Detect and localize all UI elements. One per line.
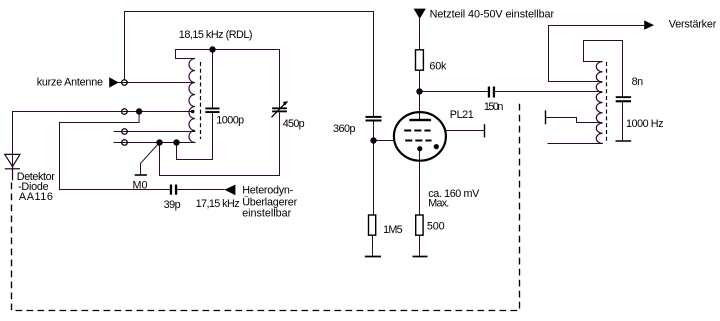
wire grid right from U1 to terminal bar (446, 130, 485, 132)
svg-text:8n: 8n (632, 76, 644, 88)
wire heterodyne feed: node to 39p line (60, 112, 170, 190)
svg-text:Heterodyn-: Heterodyn- (242, 185, 293, 197)
wire antenna arrow tip to terminal (118, 82, 121, 84)
svg-text:einstellbar: einstellbar (242, 208, 291, 220)
junction dot grid node (370, 137, 376, 143)
wire through antenna terminal (121, 82, 127, 84)
svg-text:Überlagerer: Überlagerer (242, 196, 297, 208)
svg-text:kurze Antenne: kurze Antenne (37, 77, 103, 89)
grid 1 dashes (404, 130, 430, 132)
svg-text:450p: 450p (283, 118, 305, 130)
wire detector diode to terminal row (13, 112, 128, 167)
wire tap row 3 to coil L1 (128, 131, 195, 133)
wire tap row 4 stub (114, 142, 128, 144)
svg-text:1000 Hz: 1000 Hz (626, 118, 664, 130)
wire tap row 4 / coil bottom (128, 142, 195, 144)
wire coil L1 top to 450p top (176, 50, 280, 108)
wire tap row 3 stub (114, 131, 128, 133)
antenna arrow (109, 77, 119, 87)
heterodyne arrow (224, 185, 235, 196)
detector diode AA116 (5, 154, 20, 180)
svg-text:Netzteil 40-50V einstellbar: Netzteil 40-50V einstellbar (430, 9, 555, 21)
capacitor 1000p (205, 108, 219, 114)
junction dot row 4 right (173, 139, 179, 145)
wire node to 1000p bottom (177, 113, 213, 160)
junction dot tank top (209, 46, 215, 52)
wire 360p branch below cap to 1M5 (373, 121, 375, 215)
svg-text:1M5: 1M5 (383, 224, 403, 236)
svg-text:Verstärker: Verstärker (669, 18, 717, 30)
junction dot row 4 left (156, 139, 162, 145)
resistor 1M5 (369, 215, 376, 235)
junction dot coil entry (191, 110, 195, 114)
wire 500 to ground (419, 235, 421, 256)
svg-text:60k: 60k (429, 61, 447, 73)
terminal circle tap row 4 (122, 140, 128, 146)
svg-text:500: 500 (427, 221, 445, 233)
terminal circle tap row 3 (122, 129, 128, 135)
svg-text:PL21: PL21 (450, 109, 474, 121)
wire tank bottom to 450p (160, 113, 280, 176)
Verstaerker arrow (644, 20, 654, 29)
resistor 500 (416, 215, 423, 235)
wire node to M0 ground (141, 143, 160, 175)
terminal circle detector row (122, 109, 128, 115)
svg-text:AA116: AA116 (19, 191, 53, 203)
wire coil L2 top to 8n top (584, 41, 623, 97)
wire to Verstaerker arrow (549, 26, 645, 82)
ground under 500 (413, 256, 428, 258)
coil L2 (output transformer, 8 turns) (596, 62, 602, 144)
terminal bar 8n bottom (616, 140, 632, 142)
terminal circle antenna row (122, 80, 128, 86)
wire L2 tap to vertical (549, 81, 602, 83)
wire 60k to anode of U1 (419, 70, 421, 118)
wire cathode to 500 resistor (419, 149, 421, 215)
wire grid left from 360p node to U1 (374, 140, 395, 142)
wire 1M5 to ground (372, 235, 374, 256)
ground M0 (135, 174, 147, 176)
svg-text:Max.: Max. (428, 198, 449, 210)
grid terminal bar (484, 124, 486, 137)
wire detector terminal to coil L1 tap (128, 111, 193, 113)
svg-text:1000p: 1000p (216, 115, 244, 127)
wire 8n bottom (622, 102, 624, 141)
svg-text:360p: 360p (333, 123, 356, 135)
wire 150n to transformer L2 (495, 91, 601, 93)
wire coil L2 bottom (548, 143, 603, 145)
wire junction to 1000p top (212, 50, 214, 108)
resistor 60k (416, 50, 424, 70)
capacitor 450p (variable) (272, 107, 287, 112)
svg-text:150n: 150n (484, 101, 504, 113)
junction dot detector row (136, 108, 142, 114)
wire output stub jog to L2 tap (546, 118, 602, 123)
core dashed line of L1 (200, 62, 202, 139)
capacitor 8n (616, 96, 631, 102)
svg-text:17,15 kHz: 17,15 kHz (196, 198, 240, 210)
cathode dot (417, 146, 422, 151)
svg-text:18,15 kHz (RDL): 18,15 kHz (RDL) (179, 29, 253, 41)
svg-text:39p: 39p (164, 199, 181, 211)
junction dot anode node (416, 88, 422, 94)
coil L1 (antenna coil, 7 turns) (189, 59, 195, 143)
capacitor 150n (488, 87, 495, 98)
wire anode node to 150n (420, 91, 488, 93)
wire antenna terminal to coil L1 tap (128, 82, 195, 84)
wire 39p to heterodyne arrow (178, 189, 225, 191)
capacitor 39p (170, 185, 177, 195)
output stub terminal bar (545, 110, 547, 124)
shield box dashed (12, 100, 520, 311)
heater dot (434, 144, 439, 149)
grid 2 dashes (405, 140, 431, 142)
wire top bus from antenna terminal to 360p branch (125, 12, 374, 116)
capacitor 360p (366, 116, 382, 122)
tube PL21 (394, 112, 446, 161)
core dashed line of L2 (606, 62, 608, 141)
wire Netzteil arrow to 60k (419, 19, 421, 50)
Netzteil arrow (414, 9, 426, 19)
svg-text:M0: M0 (133, 179, 148, 191)
anode plate of PL21 (409, 119, 431, 121)
ground under 1M5 (365, 256, 381, 258)
